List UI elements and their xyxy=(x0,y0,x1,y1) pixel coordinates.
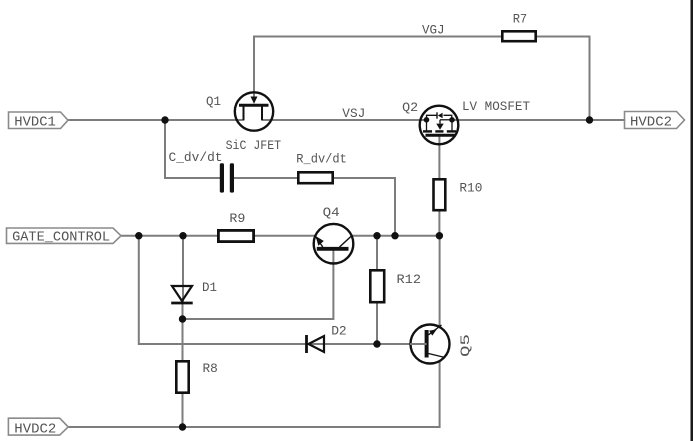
svg-text:Q2: Q2 xyxy=(402,100,418,115)
svg-text:SiC JFET: SiC JFET xyxy=(226,138,282,153)
svg-text:R10: R10 xyxy=(459,181,482,196)
svg-text:HVDC1: HVDC1 xyxy=(14,114,56,130)
svg-text:VSJ: VSJ xyxy=(342,106,365,121)
svg-text:LV MOSFET: LV MOSFET xyxy=(462,99,530,114)
svg-text:HVDC2: HVDC2 xyxy=(14,422,56,438)
svg-text:R7: R7 xyxy=(513,12,528,27)
svg-text:Q5: Q5 xyxy=(458,334,473,357)
svg-text:R8: R8 xyxy=(203,361,218,376)
svg-text:R_dv/dt: R_dv/dt xyxy=(296,152,347,167)
svg-text:Q1: Q1 xyxy=(206,94,221,109)
svg-text:HVDC2: HVDC2 xyxy=(630,114,672,130)
svg-text:D2: D2 xyxy=(331,323,347,338)
svg-text:GATE_CONTROL: GATE_CONTROL xyxy=(12,230,110,246)
svg-text:Q4: Q4 xyxy=(323,205,340,220)
svg-text:R9: R9 xyxy=(229,211,245,226)
svg-text:C_dv/dt: C_dv/dt xyxy=(169,150,223,165)
svg-text:D1: D1 xyxy=(202,280,217,295)
svg-text:VGJ: VGJ xyxy=(422,23,445,38)
svg-text:R12: R12 xyxy=(397,272,422,287)
